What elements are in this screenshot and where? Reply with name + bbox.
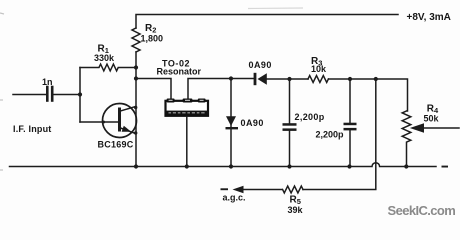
resistor R2 (132, 28, 140, 52)
svg-text:50k: 50k (424, 114, 440, 124)
resistor R5 (283, 186, 303, 193)
capacitor C3 plates (344, 123, 357, 126)
wire I.F. input (13, 94, 46, 96)
a.g.c. minus dash (221, 188, 229, 190)
svg-text:Resonator: Resonator (157, 67, 202, 77)
svg-text:0A90: 0A90 (241, 118, 264, 128)
transistor collector diagonal (121, 107, 136, 112)
wire a.g.c. vertical tap (303, 79, 376, 190)
svg-text:+8V, 3mA: +8V, 3mA (407, 12, 451, 23)
wire detector line right (329, 79, 408, 111)
svg-text:1n: 1n (42, 77, 53, 87)
svg-text:BC169C: BC169C (98, 140, 134, 150)
diode D2 0A90 horizontal (points left) (258, 73, 267, 85)
wire resonator output to detector line (188, 79, 254, 100)
svg-text:a.g.c.: a.g.c. (223, 193, 246, 203)
wire resonator input (136, 79, 171, 100)
wire detector line after diode (267, 78, 309, 80)
svg-text:SeekIC.com: SeekIC.com (388, 203, 456, 218)
svg-text:2,200p: 2,200p (295, 112, 325, 122)
svg-text:330k: 330k (94, 53, 115, 63)
svg-text:I.F. Input: I.F. Input (13, 124, 52, 134)
transistor emitter arrowhead (122, 126, 132, 132)
diode D1 0A90 vertical wire (230, 79, 232, 167)
transistor Q1 BC169C circle (103, 104, 137, 138)
transistor base bar (118, 109, 121, 130)
svg-text:0A90: 0A90 (249, 60, 272, 70)
capacitor C3 2200p right wire (349, 79, 351, 123)
wire ground rail (10, 163, 437, 167)
ground rail end dash (442, 166, 449, 168)
svg-text:10k: 10k (311, 64, 327, 74)
scan artifacts (0, 8, 303, 170)
wire base (80, 121, 118, 123)
svg-text:1,800: 1,800 (141, 34, 164, 44)
resonator ground lead (186, 116, 188, 167)
resonator TO-02 body (166, 99, 209, 167)
wire +8V top rail (136, 15, 398, 29)
resistor R4 (402, 111, 411, 167)
svg-text:2,200p: 2,200p (316, 130, 345, 140)
capacitor C2 plates (283, 123, 297, 126)
wire R1 left vertical (79, 68, 81, 123)
R4 wiper arrowhead (410, 123, 424, 132)
svg-text:39k: 39k (288, 205, 304, 215)
a.g.c. arrowhead (233, 186, 244, 193)
transistor emitter diagonal (121, 128, 136, 134)
wire cap to node (54, 94, 81, 96)
resistor R3 (308, 76, 328, 83)
wire R4 wiper arrow line (421, 127, 459, 129)
diode D1 0A90 vertical (points down) (226, 116, 236, 126)
wire collector vertical (135, 52, 137, 167)
resonator pins/tabs (167, 99, 206, 103)
wire a.g.c. to arrow (240, 189, 282, 191)
capacitor C2 2200p left wire (289, 79, 291, 124)
resistor R1 (80, 64, 136, 71)
capacitor C 1n (47, 87, 52, 101)
